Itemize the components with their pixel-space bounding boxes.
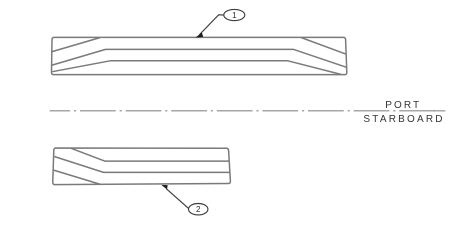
svg-text:STARBOARD: STARBOARD <box>363 114 444 125</box>
svg-text:2: 2 <box>196 205 201 214</box>
svg-text:1: 1 <box>232 11 237 20</box>
svg-text:PORT: PORT <box>385 100 421 111</box>
